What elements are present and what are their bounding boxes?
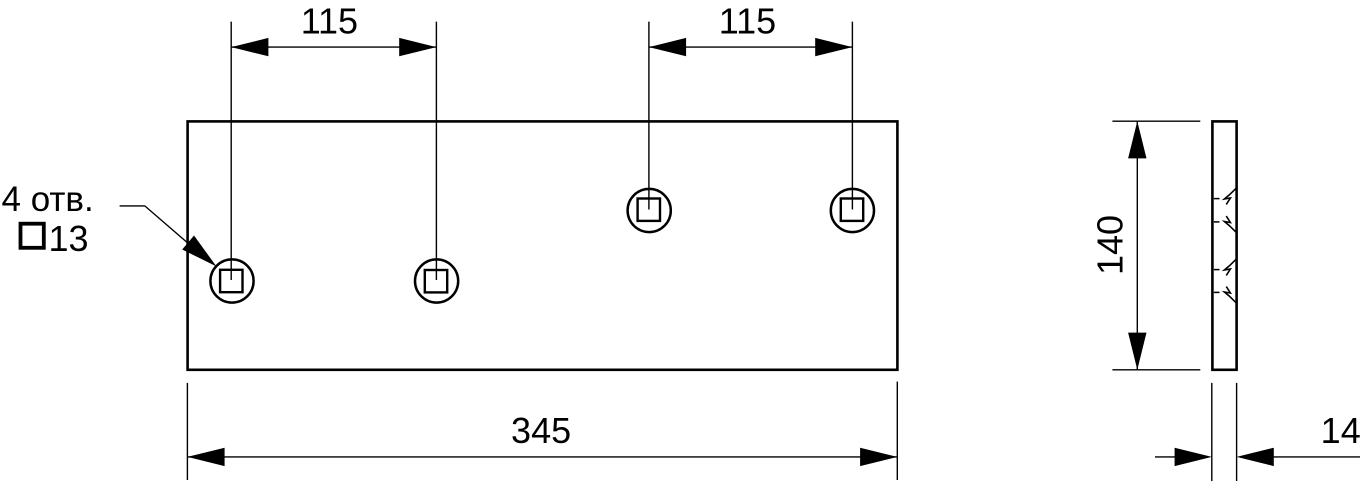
svg-text:115: 115 [719,0,776,41]
extension line 345 right [896,382,898,480]
hole H4 circle [831,189,874,232]
extension line hole H4 [851,22,853,210]
hidden hole edge mark A2 zigzag [1224,216,1236,232]
dimension line 115 right [649,46,853,48]
extension line 345 left [186,383,188,480]
svg-text:14: 14 [1321,410,1360,451]
extension line hole H1 [230,22,232,280]
arrowhead 115 left, right tip [399,38,436,56]
hole H3 square [638,199,660,221]
hidden hole edge mark A1 zigzag [1224,188,1236,204]
arrowhead 14 left [1175,448,1212,466]
hole H1 square [220,270,242,292]
dimension tail 14 right [1270,456,1360,458]
hole H3 circle [628,189,671,232]
svg-text:13: 13 [49,218,89,259]
leader arrowhead [182,236,216,267]
arrowhead 115 left, left tip [231,38,268,56]
hidden hole edge mark B1 zigzag [1224,259,1236,275]
arrowhead 115 right, right tip [815,38,852,56]
arrowhead 345 right [860,448,897,466]
arrowhead 115 right, left tip [649,38,686,56]
arrowhead 140 top [1128,121,1146,158]
extension line 140 top [1112,120,1200,122]
hole H4 square [841,199,863,221]
dimension line 140 [1136,121,1138,370]
extension line hole H2 [435,22,437,280]
hidden hole edge mark B1 dash [1214,269,1220,271]
svg-text:4 отв.: 4 отв. [2,180,94,219]
svg-text:140: 140 [1090,215,1131,275]
hole H1 circle [210,259,253,302]
dimension line 115 left [231,46,436,48]
extension line 140 bottom [1112,369,1200,371]
hole H2 square [425,270,447,292]
hidden hole edge mark B2 dash [1214,291,1220,293]
hidden hole edge mark A2 dash [1214,221,1220,223]
extension line 14 right [1236,383,1238,481]
dimension line 345 [187,456,897,458]
leader line [120,206,190,245]
arrowhead 345 left [187,448,224,466]
extension line hole H3 [648,22,650,210]
arrowhead 14 right [1237,448,1274,466]
hidden hole edge mark B2 zigzag [1224,287,1236,303]
arrowhead 140 bottom [1128,333,1146,370]
svg-text:345: 345 [511,410,571,451]
hidden hole edge mark A1 dash [1214,198,1220,200]
leader note square symbol [21,224,44,248]
hole H2 circle [415,259,458,302]
plate front view outline [188,121,898,369]
svg-text:115: 115 [301,0,358,41]
dimension tail 14 left [1155,456,1180,458]
extension line 14 left [1211,383,1213,481]
side view outline [1212,121,1236,369]
